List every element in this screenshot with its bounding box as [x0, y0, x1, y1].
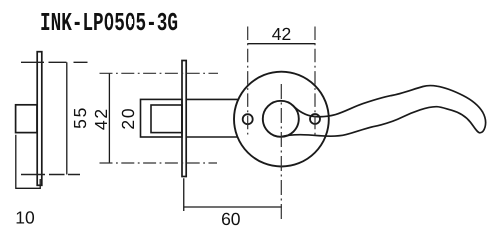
dashed extension top (55)	[21, 61, 88, 63]
center line screw top (42)	[100, 72, 219, 74]
latch tube	[151, 105, 182, 133]
rose circle	[234, 72, 329, 167]
svg-text:55: 55	[70, 106, 90, 129]
rose vertical center line	[280, 84, 282, 220]
dim 60: extension + line	[183, 178, 282, 211]
svg-text:20: 20	[118, 107, 138, 130]
backplate (center side view)	[182, 61, 186, 177]
center line screw bottom (42)	[100, 162, 218, 164]
latch bolt	[16, 105, 37, 133]
lever handle outline	[281, 86, 486, 137]
center line left screw vertical	[247, 27, 249, 135]
latch case body	[141, 99, 183, 137]
dimension labels	[15, 24, 291, 229]
dimension lines (solid)	[15, 44, 315, 211]
screw hole right	[310, 114, 320, 124]
title text INK-LP0505-3G	[40, 8, 178, 38]
screw hole left	[243, 114, 253, 124]
center line right screw vertical	[314, 27, 316, 135]
svg-text:60: 60	[221, 209, 241, 229]
hub circle	[263, 101, 299, 137]
dim line 42 vertical	[108, 73, 110, 163]
svg-text:42: 42	[91, 107, 111, 130]
dashed extension bottom (55)	[21, 174, 88, 176]
svg-text:42: 42	[272, 24, 291, 44]
dim 10: extension + line	[15, 135, 41, 189]
dim 42 top: line	[247, 43, 315, 45]
case lines to rose	[186, 99, 238, 137]
center / extension dashed lines	[21, 27, 315, 220]
zero counter covers	[107, 19, 112, 25]
dim line 55 vertical	[66, 62, 68, 174]
svg-text:10: 10	[15, 208, 35, 228]
faceplate (left side view)	[37, 52, 42, 186]
